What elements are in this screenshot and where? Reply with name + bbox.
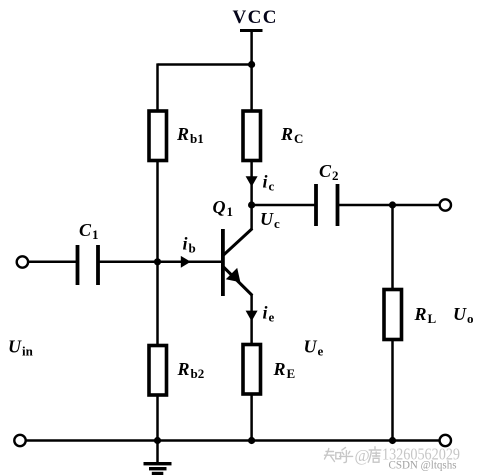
node collector output junction <box>248 201 255 208</box>
watermark zhihu <box>325 448 353 463</box>
wire input terminal to C1 <box>28 261 77 264</box>
wire Rb2 to ground node <box>156 395 159 441</box>
wire Rb1 top lead <box>156 63 159 111</box>
wire collector node to C2 <box>252 204 315 207</box>
wire top horizontal <box>158 63 252 66</box>
svg-text:Uin: Uin <box>8 337 34 359</box>
wire RL to bottom <box>391 340 394 441</box>
ground <box>144 441 172 476</box>
svg-text:ib: ib <box>183 234 196 256</box>
node base junction <box>154 258 161 265</box>
glyph zhi <box>325 449 329 460</box>
svg-text:C2: C2 <box>319 161 339 183</box>
transistor Q1 emitter arrow <box>226 268 241 282</box>
node ground junction <box>154 437 161 444</box>
svg-text:C1: C1 <box>79 220 99 242</box>
wire VCC to top node <box>250 30 253 65</box>
resistor RC <box>243 111 261 161</box>
VCC terminal bar <box>240 29 263 32</box>
node RL junction <box>389 201 396 208</box>
wire RC to collector <box>250 161 253 231</box>
terminal bottom-right circle <box>440 435 451 446</box>
svg-text:@: @ <box>355 446 370 465</box>
transistor Q1 collector diagonal <box>223 229 252 256</box>
wire RE to bottom <box>250 394 253 441</box>
wire input to base <box>158 261 222 264</box>
capacitor C1 <box>76 245 80 285</box>
svg-text:CSDN @ltqshs: CSDN @ltqshs <box>389 458 457 472</box>
arrow ie <box>246 311 258 322</box>
svg-text:Uo: Uo <box>453 304 474 326</box>
wire C2 to output terminal <box>338 204 441 207</box>
resistor Rb2 <box>149 346 167 396</box>
transistor Q1 emitter diagonal <box>223 267 252 296</box>
svg-text:Ue: Ue <box>304 337 324 359</box>
wire Rb1 to base node <box>156 161 159 262</box>
wire emitter vertical <box>250 295 253 345</box>
terminal output circle <box>440 199 451 210</box>
svg-text:RL: RL <box>414 304 437 326</box>
svg-text:Q1: Q1 <box>213 197 234 219</box>
terminal input circle <box>17 256 28 267</box>
node top junction <box>248 61 255 68</box>
resistor RE <box>243 345 261 395</box>
node RL bottom junction <box>389 437 396 444</box>
svg-text:Rb2: Rb2 <box>177 359 205 381</box>
resistor RL <box>384 290 402 340</box>
arrow ic <box>246 176 258 187</box>
wire RL top lead <box>391 205 394 290</box>
svg-text:RC: RC <box>280 124 303 146</box>
wire base node to Rb2 <box>156 262 159 346</box>
svg-text:Uc: Uc <box>260 209 280 231</box>
terminal bottom-left circle <box>14 435 25 446</box>
glyph tang <box>368 447 381 462</box>
arrow ib <box>181 256 191 268</box>
svg-text:Rb1: Rb1 <box>176 124 204 146</box>
resistor Rb1 <box>149 111 167 161</box>
wire bottom rail <box>26 439 440 442</box>
node RE bottom junction <box>248 437 255 444</box>
capacitor C2 <box>314 184 318 226</box>
svg-text:ie: ie <box>263 303 275 325</box>
wire RC top lead <box>250 65 253 112</box>
transistor Q1 base bar <box>221 229 225 296</box>
svg-text:ic: ic <box>263 172 275 194</box>
wire C1 to base node <box>98 261 158 264</box>
svg-text:RE: RE <box>273 359 296 381</box>
svg-text:VCC: VCC <box>233 7 278 28</box>
glyph hu <box>342 448 346 451</box>
